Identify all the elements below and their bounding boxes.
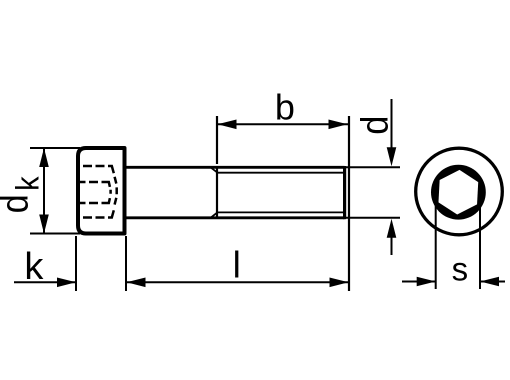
s dimension line left bbox=[402, 281, 435, 283]
k arrow bbox=[57, 278, 76, 288]
thread end face bbox=[343, 166, 346, 219]
d dimension line lower bbox=[391, 225, 393, 255]
l dimension line bbox=[127, 281, 349, 283]
s arrow right pointing left bbox=[480, 277, 499, 287]
s extension line right bbox=[479, 203, 481, 289]
thread runout diagonal top bbox=[211, 167, 218, 172]
dk arrow up bbox=[39, 148, 49, 167]
thread root line top bbox=[217, 172, 344, 174]
b arrow right bbox=[329, 120, 348, 130]
k dimension line bbox=[14, 281, 75, 283]
shank bottom line bbox=[126, 216, 345, 219]
k extension line right below head bbox=[125, 236, 127, 291]
dk arrow down bbox=[39, 215, 49, 234]
d extension line bottom bbox=[345, 217, 400, 219]
dk extension line top bbox=[30, 147, 80, 149]
socket hexagon white bbox=[438, 169, 479, 216]
l extension line right bbox=[348, 116, 350, 291]
dk dimension line bbox=[43, 148, 45, 234]
d arrow up bbox=[387, 219, 397, 238]
svg-text:b: b bbox=[275, 87, 295, 128]
thread root line bottom bbox=[217, 211, 344, 213]
b arrow left bbox=[218, 120, 237, 130]
s arrow left pointing right bbox=[417, 277, 436, 287]
thread runout diagonal bottom bbox=[211, 212, 218, 217]
b extension line left bbox=[216, 116, 218, 164]
svg-text:l: l bbox=[233, 245, 241, 286]
l arrow left bbox=[127, 278, 146, 288]
end view outer circle bbox=[416, 148, 503, 235]
screw head outline bbox=[78, 148, 125, 234]
d arrow down bbox=[387, 147, 397, 166]
l arrow right bbox=[330, 278, 349, 288]
hex socket hidden outline inner (dashed) bbox=[77, 182, 111, 203]
d extension line top bbox=[345, 166, 400, 168]
svg-text:s: s bbox=[452, 250, 469, 287]
shank top line bbox=[126, 166, 345, 169]
s dimension line right bbox=[481, 281, 505, 283]
thread start vertical line bbox=[216, 167, 218, 218]
b dimension line bbox=[217, 123, 348, 125]
svg-text:k: k bbox=[24, 246, 44, 288]
k extension line left below head bbox=[75, 236, 77, 291]
svg-text:d: d bbox=[353, 116, 396, 135]
svg-text:dk: dk bbox=[0, 176, 46, 213]
dk extension line bottom bbox=[30, 233, 80, 235]
s extension line left bbox=[435, 203, 437, 289]
socket ring filled circle bbox=[431, 165, 486, 220]
hex socket hidden outline outer (dashed) bbox=[83, 166, 117, 218]
d dimension line upper bbox=[391, 99, 393, 160]
